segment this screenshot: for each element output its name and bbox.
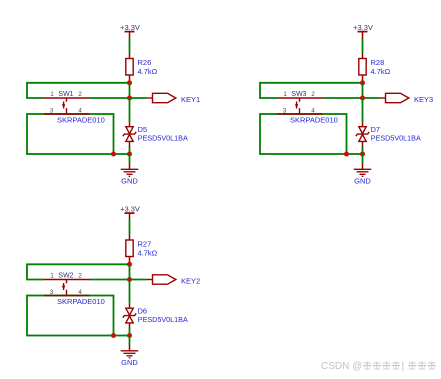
- wire power to R: [362, 39, 364, 59]
- TVS diode D5 PESD5V0L1BA: [123, 125, 188, 143]
- svg-text:KEY3: KEY3: [414, 95, 433, 104]
- port KEY1: [147, 93, 201, 104]
- wire switch pin2 to port: [323, 97, 380, 99]
- wire key row to diode: [129, 98, 131, 127]
- svg-text:PESD5V0L1BA: PESD5V0L1BA: [138, 134, 188, 143]
- wire node A loop to switch pin1: [27, 83, 130, 98]
- svg-text:+3.3V: +3.3V: [120, 23, 140, 32]
- ground: [121, 169, 139, 185]
- svg-text:PESD5V0L1BA: PESD5V0L1BA: [138, 315, 188, 324]
- svg-text:2: 2: [78, 91, 82, 98]
- wire switch pins 3-4 return loop: [260, 114, 347, 154]
- wire R to node A: [129, 75, 131, 83]
- switch SW2 SKRPADE010: [44, 273, 90, 296]
- svg-text:2: 2: [78, 273, 82, 280]
- port KEY2: [147, 275, 201, 286]
- power +3.3V: [120, 23, 140, 39]
- wire to ground: [362, 154, 364, 169]
- svg-text:2: 2: [311, 91, 315, 98]
- ground: [121, 351, 139, 367]
- svg-text:GND: GND: [121, 358, 138, 367]
- junction box corner: [111, 333, 116, 338]
- ground: [354, 169, 372, 185]
- svg-text:D5: D5: [138, 125, 148, 134]
- wire R to node A: [129, 257, 131, 265]
- wire node A to key row: [129, 264, 131, 279]
- TVS diode D7 PESD5V0L1BA: [356, 125, 421, 143]
- TVS diode D6 PESD5V0L1BA: [123, 307, 188, 325]
- svg-text:4: 4: [311, 107, 315, 114]
- wire power to R: [129, 220, 131, 240]
- wire switch pins 3-4 return loop: [27, 296, 114, 336]
- svg-text:SW3: SW3: [291, 91, 306, 98]
- svg-text:1: 1: [50, 91, 54, 98]
- svg-text:R27: R27: [138, 239, 152, 248]
- svg-text:+3.3V: +3.3V: [353, 23, 373, 32]
- junction node A: [127, 262, 132, 267]
- wire node A to key row: [362, 83, 364, 98]
- wire node A loop to switch pin1: [260, 83, 363, 98]
- svg-text:SW2: SW2: [58, 273, 73, 280]
- junction node A: [360, 80, 365, 85]
- svg-text:R26: R26: [138, 58, 152, 67]
- svg-text:KEY2: KEY2: [181, 276, 200, 285]
- svg-text:SKRPADE010: SKRPADE010: [57, 297, 105, 306]
- svg-text:4: 4: [78, 107, 82, 114]
- wire node A to key row: [129, 83, 131, 98]
- svg-text:3: 3: [50, 107, 54, 114]
- svg-text:D6: D6: [138, 307, 148, 316]
- switch SW1 SKRPADE010: [44, 91, 90, 114]
- wire key row to diode: [362, 98, 364, 127]
- junction ground row: [360, 152, 365, 157]
- junction key row: [360, 96, 365, 101]
- svg-text:SKRPADE010: SKRPADE010: [290, 116, 338, 125]
- svg-text:1: 1: [50, 273, 54, 280]
- junction key row: [127, 96, 132, 101]
- svg-text:GND: GND: [354, 177, 371, 186]
- wire switch pins 3-4 return loop: [27, 114, 114, 154]
- wire diode to bottom row: [129, 323, 131, 336]
- wire power to R: [129, 39, 131, 59]
- svg-text:D7: D7: [371, 125, 381, 134]
- wire to ground: [129, 154, 131, 169]
- wire R to node A: [362, 75, 364, 83]
- svg-text:R28: R28: [371, 58, 385, 67]
- svg-text:KEY1: KEY1: [181, 95, 200, 104]
- svg-text:4.7kΩ: 4.7kΩ: [138, 67, 158, 76]
- wire key row to diode: [129, 280, 131, 309]
- junction key row: [127, 277, 132, 282]
- port KEY3: [380, 93, 434, 104]
- resistor R28 4.7k: [359, 58, 391, 76]
- switch SW3 SKRPADE010: [277, 91, 323, 114]
- svg-text:4: 4: [78, 289, 82, 296]
- svg-text:3: 3: [283, 107, 287, 114]
- wire bottom row: [114, 335, 130, 337]
- svg-text:PESD5V0L1BA: PESD5V0L1BA: [371, 134, 421, 143]
- svg-text:3: 3: [50, 289, 54, 296]
- junction ground row: [127, 152, 132, 157]
- power +3.3V: [120, 205, 140, 221]
- wire switch pin2 to port: [90, 97, 147, 99]
- junction box corner: [344, 152, 349, 157]
- junction ground row: [127, 333, 132, 338]
- resistor R26 4.7k: [126, 58, 158, 76]
- svg-text:|: |: [402, 361, 405, 372]
- resistor R27 4.7k: [126, 239, 158, 257]
- svg-text:4.7kΩ: 4.7kΩ: [138, 248, 158, 257]
- wire diode to bottom row: [362, 141, 364, 154]
- wire switch pin2 to port: [90, 279, 147, 281]
- svg-text:CSDN @: CSDN @: [321, 361, 362, 372]
- svg-text:SKRPADE010: SKRPADE010: [57, 116, 105, 125]
- junction node A: [127, 80, 132, 85]
- svg-text:1: 1: [283, 91, 287, 98]
- power +3.3V: [353, 23, 373, 39]
- junction box corner: [111, 152, 116, 157]
- wire bottom row: [347, 153, 363, 155]
- wire diode to bottom row: [129, 141, 131, 154]
- svg-text:SW1: SW1: [58, 91, 73, 98]
- wire node A loop to switch pin1: [27, 264, 130, 279]
- wire to ground: [129, 336, 131, 351]
- svg-text:4.7kΩ: 4.7kΩ: [371, 67, 391, 76]
- wire bottom row: [114, 153, 130, 155]
- watermark: [321, 361, 436, 372]
- svg-text:GND: GND: [121, 177, 138, 186]
- svg-text:+3.3V: +3.3V: [120, 205, 140, 214]
